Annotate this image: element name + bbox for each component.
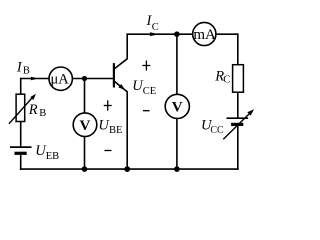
wire: right rail above RC: [237, 33, 239, 65]
svg-text:BE: BE: [109, 125, 122, 136]
svg-text:C: C: [223, 74, 230, 85]
label + (UBE polarity): [104, 100, 112, 110]
wire: base loop top (left rail corner to transistor base): [21, 78, 114, 80]
wire: right rail between RC and battery UCC: [237, 92, 239, 118]
voltmeter V (UBE): [73, 113, 97, 137]
svg-text:CE: CE: [143, 86, 156, 97]
wire: UCE voltmeter branch: [176, 34, 178, 169]
battery UCC long plate: [227, 117, 249, 119]
wire: left rail between RB and battery EB: [20, 121, 22, 147]
ammeter uA: [49, 67, 72, 90]
label + (UCE polarity): [142, 61, 150, 71]
current arrow IB: [31, 77, 39, 81]
node: emitter to bottom rail: [124, 166, 130, 172]
battery UEB short plate: [15, 152, 27, 155]
svg-text:B: B: [39, 108, 46, 119]
label - (UBE polarity): [104, 150, 111, 152]
wire: left rail upper segment: [20, 78, 22, 95]
voltmeter V (UCE): [165, 94, 189, 118]
rheostat arrow through UCC: [223, 109, 254, 139]
node: junction top rail/UCE branch: [174, 31, 180, 37]
transistor Q: emitter lead: [114, 81, 127, 169]
svg-text:V: V: [172, 100, 183, 116]
transistor Q: base bar: [113, 63, 115, 87]
wire: top rail (collector to right rail): [126, 33, 238, 35]
node: UCE branch to bottom rail: [174, 166, 180, 172]
svg-text:B: B: [23, 65, 30, 76]
ammeter mA: [193, 22, 216, 45]
resistor RB (rheostat box): [16, 94, 25, 121]
resistor RC: [233, 65, 244, 93]
svg-text:EB: EB: [46, 151, 59, 162]
current arrow IC: [150, 32, 159, 36]
wire: right rail below battery UCC: [237, 125, 239, 170]
transistor Q: emitter arrow: [118, 84, 125, 90]
wire: bottom rail: [20, 168, 239, 170]
battery UCC short plate: [231, 123, 243, 126]
svg-text:R: R: [28, 102, 38, 118]
svg-text:μA: μA: [51, 72, 70, 88]
svg-text:CC: CC: [210, 125, 224, 136]
label - (UCE polarity): [143, 110, 150, 112]
rheostat arrow through RB: [9, 94, 36, 124]
battery UEB long plate: [10, 146, 32, 148]
transistor Q: collector lead: [114, 34, 127, 69]
wire: left rail below battery EB: [20, 154, 22, 170]
node: junction base/UBE branch: [82, 76, 87, 81]
wire: UBE voltmeter branch: [84, 79, 86, 170]
svg-text:mA: mA: [193, 27, 216, 43]
svg-text:V: V: [80, 118, 91, 134]
svg-text:C: C: [152, 22, 159, 33]
node: UBE branch to bottom rail: [82, 166, 88, 172]
